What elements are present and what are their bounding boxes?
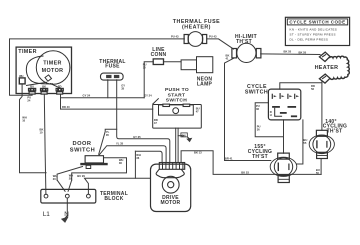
svg-text:29: 29 <box>69 177 72 181</box>
svg-text:35: 35 <box>106 133 109 137</box>
hi-limit thermostat body <box>232 43 261 62</box>
svg-text:SWITCH: SWITCH <box>166 98 188 104</box>
svg-text:BR 41: BR 41 <box>225 156 233 160</box>
wire V into N terminal <box>57 180 65 191</box>
svg-text:CONN: CONN <box>151 52 167 58</box>
svg-text:56: 56 <box>316 171 319 175</box>
svg-text:BU 29: BU 29 <box>77 174 85 178</box>
svg-text:BLOCK: BLOCK <box>104 196 123 202</box>
wire WH10 from timer WH square down <box>20 84 47 173</box>
timer WH terminal <box>19 74 25 84</box>
svg-text:BK 55: BK 55 <box>299 51 307 55</box>
wire RD40 timer to push-to-start switch <box>61 98 153 109</box>
cycle switch internal wire <box>275 108 282 117</box>
wire WH36 branch down from junction <box>134 151 136 178</box>
svg-text:41: 41 <box>226 57 229 61</box>
svg-text:55: 55 <box>303 141 306 145</box>
svg-text:HEATER: HEATER <box>315 65 339 71</box>
cycle switch middle bars <box>272 106 280 108</box>
thermal fuse heater body <box>184 32 207 47</box>
wire BK10 timer BK terminal down to L1 <box>44 94 46 194</box>
svg-text:N: N <box>64 211 69 218</box>
svg-text:TH’ST: TH’ST <box>327 128 343 134</box>
svg-text:START: START <box>168 92 186 98</box>
svg-text:ST - STURDY PERM PRESS: ST - STURDY PERM PRESS <box>290 33 336 37</box>
drive motor circle <box>162 176 179 193</box>
svg-text:SWITCH: SWITCH <box>70 148 95 154</box>
wire V into N terminal right <box>68 180 72 191</box>
svg-text:36: 36 <box>136 156 139 160</box>
svg-text:47: 47 <box>196 110 199 114</box>
drive motor connector comb <box>159 163 184 170</box>
wire door switch base diagonal to N <box>57 167 82 181</box>
wire second switch-to-motor <box>177 128 179 162</box>
svg-text:10: 10 <box>22 118 25 122</box>
svg-text:(HEATER): (HEATER) <box>182 24 211 30</box>
ground at push-to-start <box>181 133 192 142</box>
svg-text:36: 36 <box>256 107 259 111</box>
wire push-to-start switch to motor pins (pair) <box>175 128 177 162</box>
wire spur door switch top to GY35 riser <box>99 129 117 154</box>
timer motor circle <box>26 51 70 88</box>
svg-text:RD 40: RD 40 <box>62 105 70 109</box>
wire from thermal fuse heater right to hi-limit left tab <box>207 39 234 49</box>
wire GY24 timer RD terminal to line conn riser <box>61 94 145 98</box>
push to start switch body <box>152 98 201 128</box>
svg-text:DL - DEL PERM PRESS: DL - DEL PERM PRESS <box>290 38 329 42</box>
wire heater bottom to cycle switch top <box>321 82 323 131</box>
svg-text:36: 36 <box>257 128 260 132</box>
timer terminal RD <box>56 85 63 94</box>
wire BK13 motor to thermostats return <box>181 151 321 175</box>
svg-text:MOTOR: MOTOR <box>161 200 181 206</box>
wire hi-limit left tab down to 155 thermostat (BR41) <box>225 58 271 161</box>
svg-text:PU 43: PU 43 <box>209 34 217 38</box>
svg-text:PU 43: PU 43 <box>171 35 179 39</box>
svg-text:KN - KNITS AND DELICATES: KN - KNITS AND DELICATES <box>290 28 338 32</box>
wire 155 thermostat right to cycle switch bottom right <box>297 120 303 164</box>
svg-text:GY 24: GY 24 <box>83 94 91 98</box>
heater top connector <box>319 52 330 61</box>
svg-text:10: 10 <box>40 131 43 135</box>
drive motor connector shell <box>156 169 184 177</box>
svg-text:10: 10 <box>143 65 146 69</box>
svg-text:DOOR: DOOR <box>72 141 91 147</box>
terminal block body <box>41 189 96 203</box>
svg-text:BK 13: BK 13 <box>194 151 202 155</box>
svg-text:BK 55: BK 55 <box>284 50 292 54</box>
155 cycling thermostat body <box>270 153 297 182</box>
wire BK55 hi-limit to heater <box>261 53 320 56</box>
svg-text:56: 56 <box>311 87 314 91</box>
svg-text:L1: L1 <box>43 211 51 218</box>
svg-text:PUSH TO: PUSH TO <box>165 87 189 93</box>
wire BU29 third terminal to motor box <box>85 178 151 193</box>
wire 140 thermostat bottom to return <box>320 159 322 175</box>
timer cam profile <box>26 56 53 84</box>
heater bottom connector <box>319 74 330 83</box>
svg-text:CYCLE SWITCH CODE: CYCLE SWITCH CODE <box>289 20 345 25</box>
wire line conn drop <box>144 62 153 98</box>
svg-text:23: 23 <box>53 177 56 181</box>
line conn body <box>153 59 163 65</box>
wire YL35 door switch to motor pin <box>99 146 166 163</box>
wire cycle switch bottom to 155 thermostat <box>283 120 285 153</box>
svg-text:24: 24 <box>27 98 30 102</box>
wire junction to motor pin <box>135 151 162 162</box>
wire motor pin to ground stub <box>178 135 183 137</box>
svg-text:H: H <box>270 113 272 117</box>
svg-text:36: 36 <box>119 161 122 165</box>
timer switch diamond <box>45 75 52 81</box>
cycle switch bottom bars <box>280 112 287 114</box>
wire WH36 door switch NO to N loop <box>72 158 127 180</box>
timer terminal BU <box>29 85 36 94</box>
svg-text:MOTOR: MOTOR <box>42 68 64 74</box>
svg-text:FUSE: FUSE <box>105 63 120 69</box>
drive motor body <box>151 163 191 212</box>
cycle switch body <box>268 89 300 120</box>
timer terminal BK <box>41 85 48 94</box>
wire heater bottom branch left to cycle switch top pin <box>280 83 322 89</box>
wire cycle switch left exit <box>255 103 283 137</box>
wire thermal fuse right leg GY35 to motor pin <box>117 80 170 163</box>
svg-text:TIMER: TIMER <box>43 61 62 67</box>
thermal fuse body <box>101 73 124 80</box>
svg-text:TH’ST: TH’ST <box>252 154 268 160</box>
140 cycling thermostat body <box>309 130 334 158</box>
ground arrow below N <box>64 216 67 220</box>
wire N terminal to ground <box>66 198 68 216</box>
door switch body <box>80 156 107 169</box>
svg-text:YL 35: YL 35 <box>116 142 124 146</box>
svg-text:47: 47 <box>154 121 157 125</box>
neon lamp body <box>181 57 213 73</box>
wire line conn to neon lamp <box>164 61 182 63</box>
svg-text:GY 24: GY 24 <box>144 94 152 98</box>
svg-text:LAMP: LAMP <box>197 82 213 88</box>
svg-text:SWITCH: SWITCH <box>245 89 268 95</box>
cycle switch contacts top row <box>272 93 299 116</box>
timer cam lower links <box>26 82 60 88</box>
svg-text:GN: GN <box>182 133 186 137</box>
heater coil <box>329 56 349 79</box>
svg-text:35: 35 <box>121 87 124 91</box>
timer box <box>16 47 71 93</box>
svg-text:BK 53: BK 53 <box>241 170 249 174</box>
svg-text:GY 35: GY 35 <box>133 135 141 139</box>
wire riser to thermal fuse left leg <box>107 80 109 98</box>
wire PU43 top long run from left frame to thermal fuse heater <box>10 39 185 95</box>
cycle switch code box <box>285 17 349 45</box>
svg-text:TIMER: TIMER <box>18 49 37 55</box>
